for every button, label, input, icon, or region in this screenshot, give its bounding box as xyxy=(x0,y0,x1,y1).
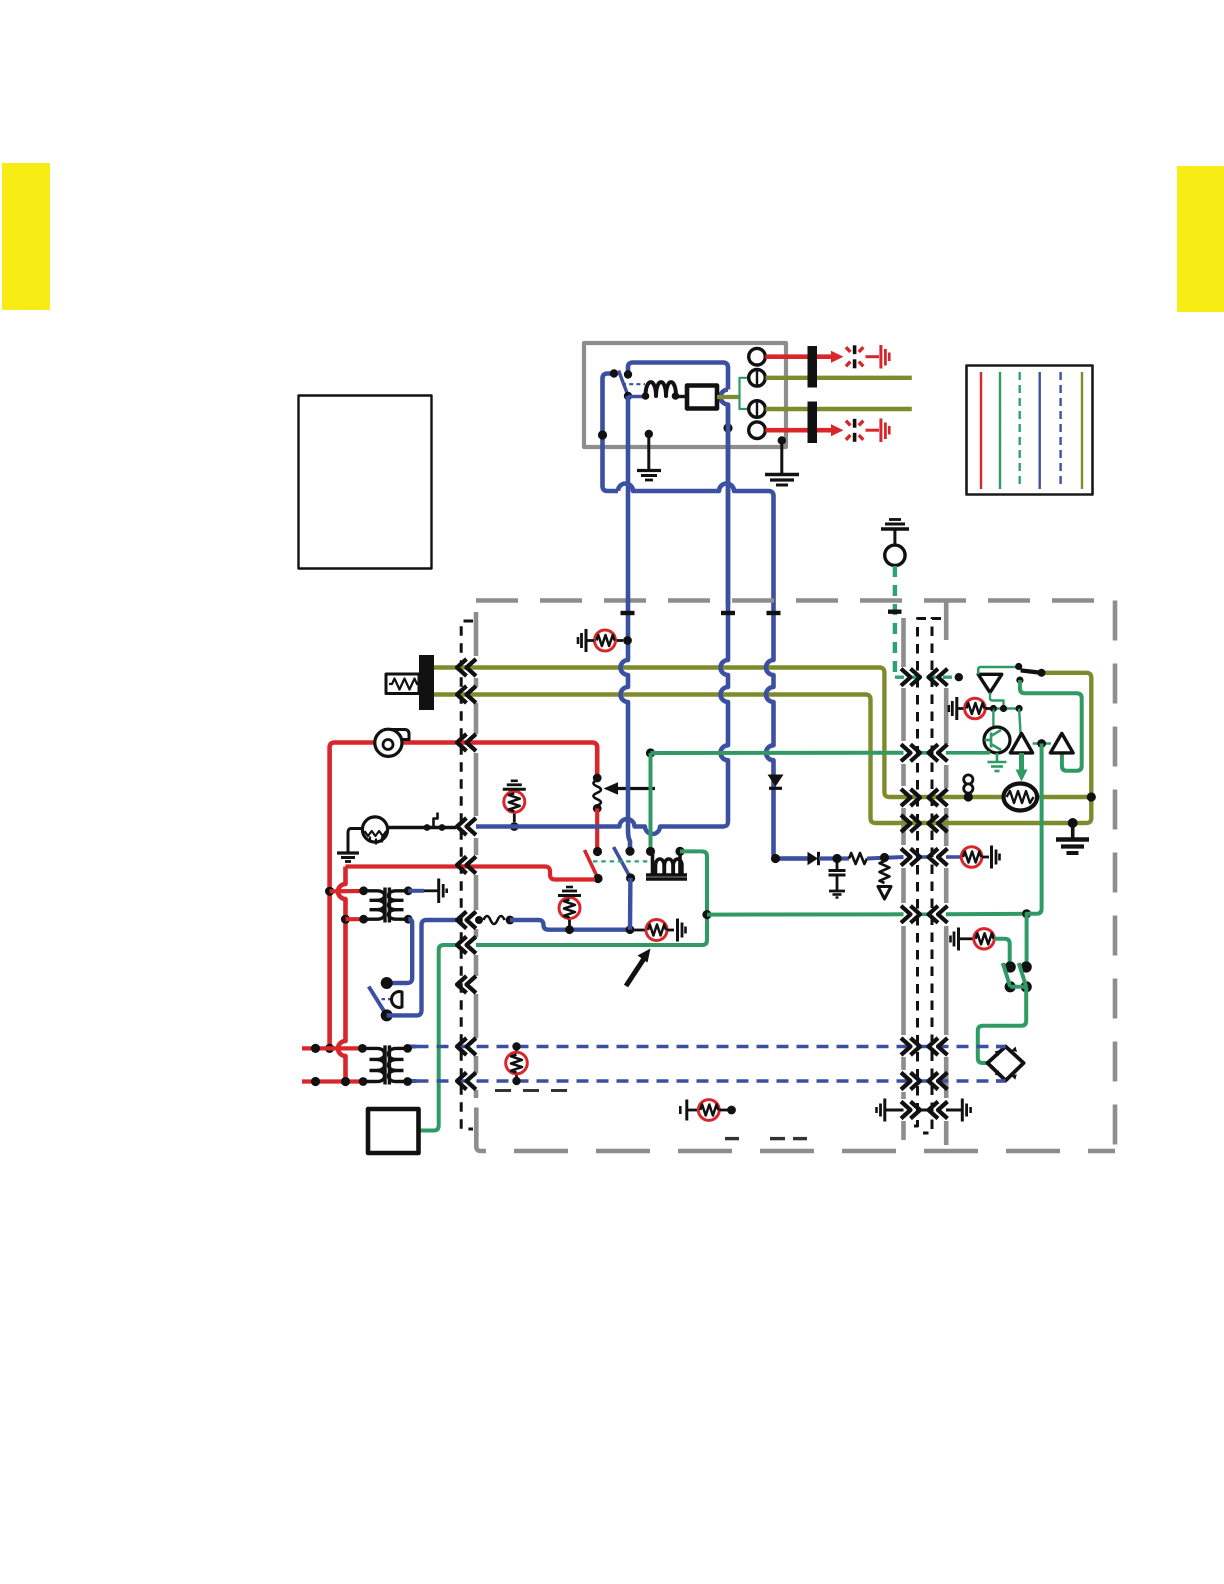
wire blue x3 vertical xyxy=(766,606,808,859)
legend wire green xyxy=(999,372,1001,489)
transistor Q1 xyxy=(984,727,1010,753)
CDI unit box U1 xyxy=(584,343,786,447)
spark gap 2 xyxy=(853,419,857,442)
wire blue step down xyxy=(510,920,630,930)
bulkhead tick x3 xyxy=(767,611,781,615)
wire teal dashed vertical xyxy=(893,566,897,673)
flex link on red xyxy=(593,774,602,783)
node xyxy=(506,916,515,925)
bulkhead tick x2 xyxy=(721,611,735,615)
wire black lamp row xyxy=(388,826,457,829)
node fan switch left xyxy=(1015,663,1022,670)
wire green coil to column xyxy=(476,851,707,945)
node on olive row1 xyxy=(964,792,973,801)
switch S1 contact b xyxy=(624,370,632,378)
frame box right edge xyxy=(1113,601,1118,1152)
spark lead ground T1 xyxy=(424,889,438,892)
node L1 right xyxy=(672,392,680,400)
ground link row bottom xyxy=(877,1099,885,1122)
node red inner T1 xyxy=(341,915,350,924)
relay contact red top xyxy=(593,847,602,856)
wire red to coil T1 primary bottom xyxy=(346,917,364,921)
ground inside U1 xyxy=(645,430,653,438)
ECU bottom box xyxy=(368,1109,419,1153)
thermal cutout symbol xyxy=(964,775,973,784)
node red branch T1 xyxy=(325,887,334,896)
switch S1 link dashed xyxy=(622,383,645,385)
wire green left drop to ECU box xyxy=(419,945,456,1131)
wire olive row2 connector gap xyxy=(914,821,934,825)
wire olive out 2 xyxy=(766,407,912,411)
node stub1 xyxy=(311,1044,320,1053)
connector chevrons right column out xyxy=(901,669,920,686)
wire blue right vertical hop over olive xyxy=(721,390,728,607)
wire green relay output xyxy=(646,748,655,757)
wire teal dashed horizontal xyxy=(895,676,954,679)
wire green to rectifier xyxy=(978,987,1026,1063)
wire green main row xyxy=(651,751,904,755)
wire blue row in connector xyxy=(919,855,929,859)
legend wire red xyxy=(980,372,982,489)
empty note box xyxy=(299,396,432,569)
node suppressor stem xyxy=(565,925,574,934)
yellow tab left xyxy=(2,163,50,310)
wire blue d2 to resistor xyxy=(819,856,849,860)
wire green node row xyxy=(993,707,1019,709)
ignition coil T1 xyxy=(364,888,409,923)
relay blade red xyxy=(585,850,599,879)
node red inner bottom xyxy=(341,1077,350,1086)
ground on olive row2 xyxy=(1068,818,1078,828)
node blue right junction xyxy=(723,423,732,432)
node L1 left xyxy=(642,392,650,400)
wire green to amp1 apex xyxy=(1019,709,1020,734)
spark plug ground 2 xyxy=(881,419,889,443)
pointer arrow xyxy=(626,957,645,986)
sensor circle B1 xyxy=(885,545,905,565)
node red outer bottom xyxy=(325,1044,334,1053)
fan motor triangle down xyxy=(978,674,1002,692)
frame box bottom edge xyxy=(514,1149,1115,1154)
connector line left dashed xyxy=(461,621,473,1129)
wire blue dashed pickup row2 xyxy=(408,1079,417,1083)
switch S1 pivot xyxy=(624,392,632,400)
node varistor tap xyxy=(880,853,889,862)
varistor RV1 xyxy=(880,861,890,883)
node capacitor tap xyxy=(832,854,841,863)
wire red to coil T1 primary top xyxy=(330,889,364,893)
legend wire olive xyxy=(1081,372,1083,489)
pickup coil T2 xyxy=(362,1045,407,1084)
wire olive module output xyxy=(717,395,741,399)
node teal end dot xyxy=(955,673,963,681)
adjuster arrow xyxy=(612,787,655,790)
amplifier triangle 2 xyxy=(1050,733,1073,753)
relay contact blue top xyxy=(625,847,634,856)
legend wire blue xyxy=(1038,372,1040,489)
capacitor C1 xyxy=(836,859,839,870)
ground under lamp xyxy=(337,851,359,854)
sensor stem xyxy=(893,529,896,546)
wire red stub row2 xyxy=(302,1079,363,1083)
blower motor M1 xyxy=(384,730,409,740)
suppressor R10 bottom xyxy=(680,1100,687,1121)
node buzzer switch bottom xyxy=(381,1009,393,1021)
relay link dashed xyxy=(593,860,649,862)
wire blue lamp row to x2 xyxy=(476,819,728,834)
node amp link xyxy=(1037,739,1046,748)
suppressor R7 left of fan xyxy=(949,697,957,720)
heater switch contacts xyxy=(1005,961,1016,972)
resistor R5 inline xyxy=(849,853,867,864)
connector chevrons right column in xyxy=(929,669,948,686)
spark plug ground 1 xyxy=(881,345,889,369)
inductor L1 xyxy=(646,382,677,396)
buzzer switch blade xyxy=(369,987,387,1016)
suppressor R4 line xyxy=(630,929,646,932)
heater switch blades xyxy=(1003,963,1010,987)
wire red keyswitch row xyxy=(346,867,596,880)
heater resistor box xyxy=(386,674,419,694)
frame box bottom-left corner xyxy=(476,1108,486,1152)
connector block bar top xyxy=(808,346,818,388)
connector line right dashed b xyxy=(923,619,941,1134)
spark gap 1 xyxy=(853,345,857,368)
node xyxy=(475,916,483,924)
switch S1 blade xyxy=(619,371,629,396)
wire blue to connector xyxy=(867,857,904,859)
relay contact blue bottom xyxy=(626,873,635,882)
suppressor R1 on x1 xyxy=(623,636,632,645)
amplifier triangle 1 xyxy=(1010,733,1032,753)
node fan switch right xyxy=(1038,669,1046,677)
wire blue bottom link with hops to x3 xyxy=(618,484,774,607)
heater bar block xyxy=(419,655,434,710)
node blue left junction xyxy=(598,430,607,439)
node olive junction xyxy=(1087,792,1096,801)
wire black L1 to module xyxy=(676,395,688,398)
frame box left edge segments xyxy=(474,612,479,1098)
wire green fan switch link xyxy=(978,667,1016,674)
flex link on horn wire xyxy=(484,916,505,924)
stray dashes left xyxy=(495,1089,567,1092)
warning lamp xyxy=(362,817,387,842)
wire green right side row2 xyxy=(946,912,1022,917)
terminal circle 3 xyxy=(749,401,766,418)
suppressor R3 vertical xyxy=(568,919,571,930)
suppressor R2 over lamp row xyxy=(510,822,519,831)
wire green thick into heater xyxy=(1019,753,1024,771)
wire green apex link xyxy=(990,693,1004,709)
terminal circle 4 xyxy=(749,422,766,439)
wire blue x1 from CDI xyxy=(621,396,631,848)
wire blue pivot to inductor xyxy=(628,395,646,398)
wire blue x2 vertical xyxy=(721,405,728,822)
wire blue buzzer to connector xyxy=(387,920,456,1015)
legend wire blue dashed xyxy=(1059,372,1061,489)
rectifier bridge xyxy=(988,1047,1024,1081)
transistor ground green xyxy=(996,753,999,762)
sensor ground top xyxy=(881,520,909,530)
wire green between amps xyxy=(1033,742,1051,745)
ground right of U1 xyxy=(778,436,786,444)
relay coil K1 xyxy=(646,847,655,856)
terminal circle 1 xyxy=(749,348,766,365)
module box inside U1 xyxy=(687,386,717,409)
wire blue horn row right xyxy=(476,918,481,922)
wire green heater switch feed xyxy=(994,939,1010,962)
lamp switch tick xyxy=(434,813,438,828)
bulkhead tick teal xyxy=(888,610,902,614)
stray dashes mid bottom xyxy=(725,1137,807,1140)
yellow tab right xyxy=(1177,166,1224,312)
switch S1 contact a xyxy=(610,369,618,377)
bulkhead tick x1 xyxy=(621,611,635,615)
relay blade blue xyxy=(614,847,631,878)
wire red spark 1 xyxy=(766,354,834,359)
wire olive row1 connector gap xyxy=(914,795,934,799)
wire blue exciter left vertical xyxy=(603,374,619,492)
wire olive out 1 xyxy=(766,376,912,380)
wire green loop to amp2 xyxy=(1020,680,1082,771)
node b xyxy=(1000,705,1007,712)
buzzer horn symbol xyxy=(392,992,403,1008)
wire blue T1 HT lead xyxy=(408,889,424,893)
suppressor R8 xyxy=(951,928,959,951)
wire green amp drop xyxy=(1027,744,1042,963)
node c xyxy=(1016,705,1023,712)
relay contact red bottom xyxy=(593,874,602,883)
connector block bar bottom xyxy=(808,402,818,444)
fan switch blade xyxy=(1021,668,1042,675)
suppressor R6 right xyxy=(946,855,962,859)
wire green row2 xyxy=(707,912,904,916)
connector chevrons left column xyxy=(457,659,476,676)
wire red stub row1 xyxy=(302,1046,362,1050)
legend box xyxy=(967,366,1093,495)
node green below switch xyxy=(1016,677,1023,684)
frame box top edge xyxy=(476,598,1115,603)
wire green terminal tee xyxy=(740,378,749,409)
wire red inner vertical xyxy=(338,867,345,1082)
wire olive row1 to heater element xyxy=(934,797,1091,823)
wire green to transistor xyxy=(992,709,994,729)
buzzer link dashed xyxy=(375,998,395,1000)
node switch drop junction xyxy=(626,925,635,934)
terminal circle 2 xyxy=(749,370,766,387)
suppressor R9 between rows xyxy=(512,1042,520,1050)
diode D2 inline xyxy=(783,856,807,860)
wire blue relay drop xyxy=(628,878,633,930)
node buzzer switch top xyxy=(381,977,393,989)
right column gray bar left segments xyxy=(901,618,906,1140)
wire red main feed xyxy=(330,743,598,1049)
wire blue T1 to buzzer switch xyxy=(390,919,412,983)
heater element oval xyxy=(1004,784,1038,811)
node a xyxy=(990,705,997,712)
node green tap xyxy=(702,910,711,919)
right column gray bar right segments xyxy=(944,600,949,1145)
node stub2 xyxy=(311,1077,320,1086)
legend wire green dashed xyxy=(1019,372,1021,489)
connector line right dashed a xyxy=(909,619,926,1127)
wire red to relay contact xyxy=(595,808,599,848)
wire olive heater return xyxy=(434,695,914,824)
wire olive heater feed out xyxy=(434,668,914,798)
diode D1 on x3 xyxy=(768,775,784,787)
wire blue switch top loop xyxy=(628,363,728,390)
wire blue dashed pickup row1 xyxy=(408,1045,417,1049)
node x3 corner xyxy=(771,854,780,863)
wire red spark 2 xyxy=(766,428,834,433)
wire black lamp to ground xyxy=(348,829,363,853)
wire olive fan switch feed xyxy=(1042,673,1092,797)
